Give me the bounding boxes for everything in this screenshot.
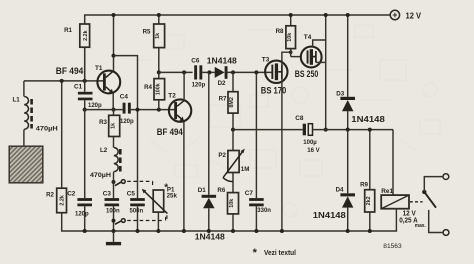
junction dot D4/ground rail [346, 229, 350, 233]
resistor R2 2.2k [46, 81, 66, 231]
svg-text:8M2: 8M2 [229, 97, 235, 108]
wire T3 source to ground rail [281, 79, 283, 231]
ground chassis symbol [106, 231, 121, 245]
svg-text:470µH: 470µH [90, 173, 111, 179]
junction dot T2 emitter/rail [182, 229, 186, 233]
junction dot C3 lower tap [112, 219, 116, 223]
junction dot C3/ground rail [112, 229, 116, 233]
junction dot T4 drain/bus [324, 128, 328, 132]
potentiometer P2 1M [218, 130, 249, 193]
svg-text:T3: T3 [262, 56, 270, 63]
svg-text:1N4148: 1N4148 [351, 115, 385, 124]
svg-text:120p: 120p [120, 119, 134, 125]
svg-text:C2: C2 [67, 190, 76, 197]
svg-text:C1: C1 [74, 84, 83, 91]
svg-text:1M: 1M [241, 166, 250, 173]
svg-text:C4: C4 [120, 94, 129, 101]
junction dot R6/ground rail [231, 229, 235, 233]
svg-text:100µ: 100µ [303, 140, 317, 146]
junction dot R8/T3/T4 gate [289, 50, 293, 54]
wire bottom ground rail [62, 230, 397, 232]
wire collector branch to C5 node [114, 56, 138, 199]
terminal +12V [390, 10, 421, 20]
wire C4 to T2 base [131, 109, 175, 111]
svg-text:120p: 120p [75, 211, 89, 217]
capacitor C5 500n [127, 190, 145, 231]
adjust arm upper (ganged) [115, 180, 153, 187]
junction dot D1/ground rail [207, 229, 211, 233]
svg-text:L1: L1 [13, 97, 21, 104]
junction dot C1/emitter wire [83, 108, 87, 112]
svg-text:R2: R2 [46, 192, 54, 199]
svg-text:2.2k: 2.2k [60, 195, 66, 206]
svg-text:R9: R9 [360, 181, 368, 188]
transistor T4 BS250 [295, 34, 322, 79]
svg-text:1k: 1k [155, 33, 161, 39]
svg-text:1N4148: 1N4148 [313, 211, 347, 220]
junction dot D3/rail [346, 13, 350, 17]
resistor R8 10k [276, 15, 296, 49]
capacitor C2 120p [67, 110, 92, 231]
junction dot T2 collector tap [182, 70, 186, 74]
capacitor C4 120p [120, 94, 134, 125]
wire relay bus left [233, 129, 303, 131]
inductor L2 470uH [90, 147, 120, 182]
junction dot T3 source/rail [280, 229, 284, 233]
junction dot R1/base [83, 79, 87, 83]
junction dot D1 tap [207, 70, 211, 74]
wire T3 drain to R8/T4 gate [282, 52, 291, 64]
wire T1 collector to rail [113, 15, 115, 71]
svg-text:R7: R7 [219, 95, 227, 102]
capacitor C7 330n [245, 72, 272, 231]
resistor R3 1k [99, 110, 120, 148]
wire T4 source to rail [313, 40, 326, 47]
svg-text:C7: C7 [245, 190, 254, 197]
potentiometer P1 25k [142, 183, 178, 231]
transistor T1 BF494 [56, 65, 120, 94]
svg-text:100n: 100n [106, 209, 120, 215]
svg-text:D4: D4 [336, 186, 344, 193]
junction dot R7/bus [231, 128, 235, 132]
svg-text:R6: R6 [217, 187, 225, 194]
junction dot C5 branch [136, 108, 140, 112]
junction dot R4 bottom [157, 108, 161, 112]
transistor T3 BS170 [261, 56, 288, 95]
svg-text:1N4148: 1N4148 [207, 56, 238, 65]
antenna sense plate (hatched) [9, 146, 43, 183]
diode D3 1N4148 [336, 15, 385, 130]
junction dot R9/ground rail [368, 229, 372, 233]
capacitor C3 100n [103, 182, 120, 231]
relay Re1 coil [381, 130, 426, 231]
svg-text:1k: 1k [110, 123, 116, 129]
svg-text:max.: max. [415, 223, 426, 229]
junction dot collector/rail [112, 13, 116, 17]
junction dot C7 tap [254, 70, 258, 74]
junction dot emitter node [112, 108, 116, 112]
svg-text:470µH: 470µH [36, 126, 58, 132]
svg-text:C3: C3 [103, 190, 112, 197]
svg-text:C8: C8 [295, 115, 304, 122]
svg-text:25k: 25k [167, 192, 178, 199]
resistor R7 8M2 [219, 72, 238, 129]
svg-text:1N4148: 1N4148 [195, 233, 226, 242]
svg-text:*: * [253, 247, 258, 259]
svg-text:12 V: 12 V [406, 11, 422, 21]
svg-text:2k2: 2k2 [366, 196, 372, 205]
wire T4 drain [316, 61, 326, 63]
junction dot C2/ground rail [83, 229, 87, 233]
wire T2 collector up [183, 72, 185, 100]
svg-text:L2: L2 [100, 147, 108, 154]
wire T1 emitter down [112, 93, 114, 109]
junction dot D3 D4/bus [346, 128, 350, 132]
resistor R9 2k2 [360, 130, 375, 231]
transistor T2 BF494 [157, 92, 192, 137]
resistor R5 1k [143, 15, 165, 72]
junction dot P1/ground rail [156, 229, 160, 233]
junction dot collector branch [112, 54, 116, 58]
svg-text:10k: 10k [287, 33, 293, 42]
note: Vezi textul [253, 247, 296, 259]
relay contact and terminals [410, 174, 449, 236]
svg-text:R1: R1 [64, 27, 72, 34]
junction dot R2/base [60, 79, 64, 83]
wire T4 gate [291, 49, 301, 57]
junction dot R5/detector node [157, 70, 161, 74]
adjust arm lower (ganged) [115, 216, 166, 225]
svg-text:T1: T1 [95, 65, 103, 72]
svg-text:16 V: 16 V [307, 148, 319, 154]
wire detector node [159, 71, 193, 73]
junction dot R7 tap [231, 70, 235, 74]
svg-text:T4: T4 [304, 34, 312, 41]
svg-text:BS 250: BS 250 [295, 69, 319, 79]
svg-text:C6: C6 [191, 57, 200, 64]
svg-text:R8: R8 [276, 28, 284, 35]
svg-text:81563: 81563 [383, 243, 402, 250]
junction dot R5/rail [157, 13, 161, 17]
diode D1 1N4148 [195, 72, 226, 241]
svg-text:120p: 120p [192, 83, 206, 89]
junction dot R8/rail [289, 13, 293, 17]
junction dot C5/ground rail [136, 229, 140, 233]
wire T2 emitter to ground rail [183, 121, 185, 231]
capacitor C6 120p [191, 57, 214, 88]
svg-text:120p: 120p [88, 103, 102, 109]
svg-text:100k: 100k [155, 83, 161, 95]
svg-text:500n: 500n [130, 209, 144, 215]
svg-text:D3: D3 [336, 90, 344, 97]
svg-text:Re1: Re1 [381, 188, 393, 195]
svg-text:R4: R4 [144, 84, 152, 91]
svg-text:BF 494: BF 494 [157, 127, 184, 137]
resistor R4 100k [144, 72, 165, 109]
wire emitter node to C4 [85, 109, 123, 111]
svg-text:2.2k: 2.2k [83, 30, 89, 41]
ghost bleed-through (decorative, faint) [130, 25, 440, 217]
svg-text:Vezi textul: Vezi textul [264, 248, 296, 257]
resistor R6 10k [217, 187, 238, 231]
svg-text:T2: T2 [168, 92, 176, 99]
wire rail drop to C8 node [325, 15, 327, 130]
junction dot C7/ground rail [254, 229, 258, 233]
node base wire T1 [24, 80, 104, 82]
svg-text:R5: R5 [143, 28, 151, 35]
svg-text:BF 494: BF 494 [56, 66, 84, 76]
svg-text:R3: R3 [99, 119, 107, 126]
inductor L1 470uH [13, 81, 58, 146]
wire top +12V rail [85, 14, 391, 16]
junction dot T4 drop/rail [324, 13, 328, 17]
diode D2 1N4148 [207, 56, 272, 87]
svg-text:D1: D1 [198, 187, 206, 194]
svg-text:P2: P2 [218, 152, 226, 159]
svg-text:D2: D2 [218, 80, 226, 87]
svg-text:C5: C5 [127, 190, 136, 197]
junction dot R9/bus [368, 128, 372, 132]
capacitor C1 120p [74, 47, 102, 109]
junction dot L2/C3 tap [112, 180, 116, 184]
svg-text:10k: 10k [229, 199, 235, 208]
resistor R1 2.2k [64, 15, 90, 81]
svg-text:330n: 330n [257, 208, 271, 214]
capacitor C8 100u 16V [295, 115, 393, 154]
diode D4 1N4148 [313, 130, 355, 231]
